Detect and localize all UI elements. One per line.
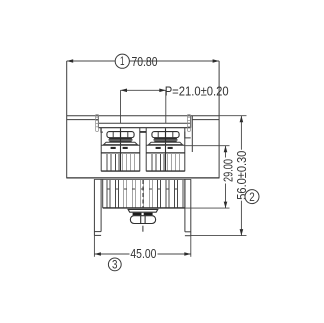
lower block hatch stripes	[107, 180, 183, 207]
left leg inner	[100, 179, 102, 231]
dim 45 ext left	[93, 235, 95, 256]
P left leg	[120, 90, 122, 123]
right inner wall	[191, 116, 193, 152]
body right edge	[218, 61, 220, 178]
middle box-top line	[98, 127, 190, 129]
middle recessed top line	[98, 122, 190, 124]
bottom washer bands	[133, 213, 142, 216]
svg-text:70.80: 70.80	[132, 54, 158, 69]
P right leg	[165, 90, 167, 123]
dim 29.00 ext bottom	[185, 207, 230, 209]
dim P lines	[121, 89, 166, 91]
arrowheads	[67, 59, 74, 63]
right leg bottom	[185, 235, 191, 237]
flange bottom line	[67, 177, 219, 179]
bottom clamp plate	[128, 209, 158, 212]
right terminal assembly	[146, 128, 185, 172]
lower block right edge	[184, 179, 186, 208]
lower block bottom	[103, 207, 185, 209]
lower block left edge	[102, 179, 104, 208]
flange top edge	[67, 115, 219, 117]
bottom screw assembly	[128, 209, 158, 231]
svg-text:1: 1	[120, 56, 125, 68]
dim 45 ext right	[190, 236, 192, 257]
svg-text:P=21.0±0.20: P=21.0±0.20	[165, 84, 229, 99]
bottom screw head	[130, 216, 155, 224]
body left edge	[66, 61, 68, 178]
dim 56 ext top	[219, 115, 246, 117]
middle section left wall	[97, 116, 99, 128]
left terminal assembly	[101, 128, 140, 172]
bottom centerline dashed	[142, 180, 144, 208]
flange bottom lower line	[94, 178, 190, 180]
middle section right wall	[190, 116, 192, 128]
left leg foot line	[94, 231, 101, 233]
balloon 2	[245, 190, 259, 204]
dim 45 line	[94, 253, 190, 255]
bottom center mark	[142, 226, 144, 232]
right leg outer	[190, 179, 192, 236]
flange inner top line left	[67, 119, 99, 121]
right leg inner	[184, 179, 186, 232]
svg-text:2: 2	[249, 192, 255, 204]
left tab	[96, 114, 99, 131]
dim 56 ext bottom	[191, 235, 247, 237]
flange inner top line right	[192, 119, 219, 121]
right corner step	[185, 132, 191, 138]
dim 29.00 line	[225, 146, 227, 208]
dim text 56.0±0.30 (rotated)	[234, 150, 249, 201]
divider bar between boxes	[140, 131, 146, 133]
svg-text:3: 3	[112, 260, 118, 272]
dim text 29.00 (rotated)	[220, 158, 235, 184]
left corner step	[101, 128, 103, 132]
balloon 1	[115, 54, 129, 68]
left leg outer	[93, 179, 95, 235]
balloon 3	[108, 258, 121, 272]
dim 56 line	[240, 116, 242, 236]
dim 29.00 ext top	[185, 145, 230, 147]
bottom head flats	[140, 216, 142, 223]
right leg foot line	[185, 231, 191, 233]
svg-text:29.00: 29.00	[220, 159, 235, 182]
left leg bottom	[94, 234, 101, 236]
svg-text:45.00: 45.00	[130, 246, 156, 261]
dim 70.80 line	[67, 60, 116, 62]
right tab	[188, 114, 191, 131]
dim text 45.00	[130, 246, 158, 261]
